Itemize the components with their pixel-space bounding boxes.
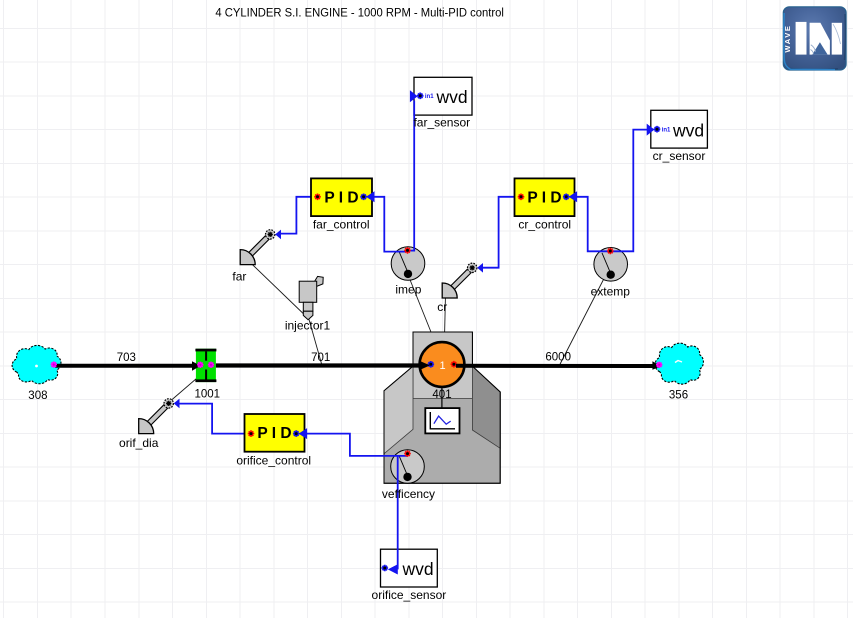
svg-text:701: 701 xyxy=(311,352,330,364)
link line orif_dia to orifice 1001 xyxy=(170,379,197,402)
imep output port xyxy=(404,247,411,254)
svg-text:wvd: wvd xyxy=(401,559,433,579)
wire cr_control input from extemp xyxy=(577,197,611,252)
PID cr_control xyxy=(515,178,578,216)
engine outline redraw xyxy=(384,332,500,483)
wire cr_sensor to extemp xyxy=(610,130,651,252)
engine head block xyxy=(413,332,472,399)
orifice 1001 xyxy=(195,349,216,382)
wire vefficency junction to orifice_sensor xyxy=(397,456,399,570)
sensor extemp xyxy=(594,247,628,281)
svg-text:cr: cr xyxy=(437,300,447,314)
sensor vefficency xyxy=(391,450,425,484)
duct 703 xyxy=(55,364,193,368)
svg-text:in1: in1 xyxy=(662,127,671,133)
svg-text:injector1: injector1 xyxy=(285,319,331,333)
engine left wing xyxy=(384,366,413,454)
svg-text:wvd: wvd xyxy=(435,87,467,107)
cylinder intake port xyxy=(428,361,435,368)
actuator orif_dia xyxy=(139,399,180,434)
svg-text:far_sensor: far_sensor xyxy=(413,116,470,130)
PID orifice_control xyxy=(245,414,308,452)
svg-text:in1: in1 xyxy=(425,94,434,100)
duct 6000 xyxy=(456,364,653,368)
plot box xyxy=(425,408,459,433)
svg-text:1001: 1001 xyxy=(195,388,221,400)
svg-text:4 CYLINDER S.I. ENGINE - 1000: 4 CYLINDER S.I. ENGINE - 1000 RPM - Mult… xyxy=(215,8,504,20)
ambient cloud 308 xyxy=(12,345,61,383)
WAVE logo badge xyxy=(783,7,846,70)
svg-text:401: 401 xyxy=(432,389,451,401)
actuator cr xyxy=(442,263,483,298)
svg-text:imep: imep xyxy=(395,283,421,297)
link line injector1 to duct 701 xyxy=(309,319,322,364)
wire far_control output to far xyxy=(281,197,311,234)
PID far_control xyxy=(311,178,375,216)
actuator far xyxy=(240,230,281,265)
wire orifice_control input from vefficency xyxy=(307,434,408,456)
svg-text:wvd: wvd xyxy=(672,120,704,140)
orifice_sensor in arrow over wire xyxy=(388,564,398,574)
engine right wing xyxy=(472,366,500,448)
cylinder 1 xyxy=(420,342,465,387)
injector1 xyxy=(299,276,323,319)
link line vefficency to cylinder xyxy=(414,388,438,453)
engine silhouette xyxy=(384,332,500,483)
svg-text:6000: 6000 xyxy=(545,351,571,363)
wire cr_control output to cr xyxy=(483,197,515,268)
svg-text:far_control: far_control xyxy=(313,218,370,232)
cloud 308 port xyxy=(51,361,57,367)
orifice port left xyxy=(197,362,203,368)
link line far to injector1 xyxy=(252,264,309,319)
orifice port right xyxy=(208,362,214,368)
svg-text:orif_dia: orif_dia xyxy=(119,436,159,450)
svg-text:orifice_control: orifice_control xyxy=(236,454,311,468)
link line extemp to duct 6000 xyxy=(560,280,604,366)
svg-text:WAVE: WAVE xyxy=(783,24,792,52)
wvd box far_sensor xyxy=(410,77,472,115)
vefficency output port xyxy=(404,450,411,457)
wire far_control input from imep xyxy=(375,197,408,252)
svg-text:cr_control: cr_control xyxy=(518,218,571,232)
wire orifice_control output to orif_dia xyxy=(179,404,244,434)
extemp output port xyxy=(607,248,614,255)
svg-text:308: 308 xyxy=(28,390,47,402)
wvd box orifice_sensor xyxy=(381,549,438,587)
wvd box cr_sensor xyxy=(647,110,708,148)
svg-text:P I D: P I D xyxy=(324,190,358,207)
svg-text:vefficency: vefficency xyxy=(382,487,435,501)
link line cr to cylinder xyxy=(444,299,445,343)
duct 701 xyxy=(216,363,420,367)
cloud 356 port xyxy=(656,362,662,368)
svg-text:P I D: P I D xyxy=(257,425,291,442)
cylinder exhaust port xyxy=(451,361,458,368)
wire far_sensor to imep xyxy=(408,101,415,251)
svg-text:extemp: extemp xyxy=(591,285,631,299)
svg-text:P I D: P I D xyxy=(527,190,561,207)
svg-text:356: 356 xyxy=(669,389,688,401)
sensor imep xyxy=(391,247,425,281)
ambient cloud 356 xyxy=(655,343,703,384)
svg-text:703: 703 xyxy=(117,352,136,364)
plot box link line xyxy=(441,387,443,409)
svg-text:cr_sensor: cr_sensor xyxy=(653,149,706,163)
svg-text:orifice_sensor: orifice_sensor xyxy=(372,588,447,602)
svg-text:far: far xyxy=(232,270,246,284)
svg-text:1: 1 xyxy=(439,360,445,372)
link line imep to cylinder xyxy=(410,279,437,345)
